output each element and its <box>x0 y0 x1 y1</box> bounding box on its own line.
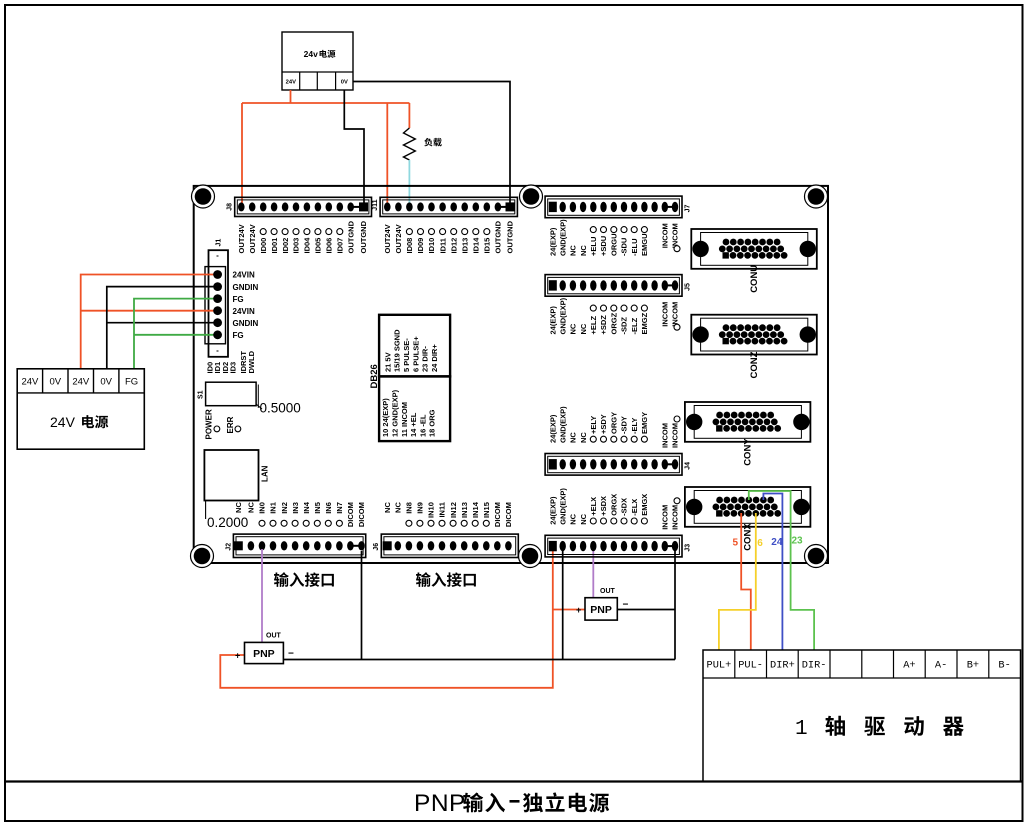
svg-text:NC: NC <box>383 502 392 513</box>
svg-text:CONX: CONX <box>743 523 754 551</box>
svg-text:B-: B- <box>998 660 1010 672</box>
svg-text:A-: A- <box>935 660 947 672</box>
svg-text:GND(EXP): GND(EXP) <box>558 488 567 525</box>
svg-text:-SDY: -SDY <box>620 416 629 434</box>
svg-text:ID09: ID09 <box>416 238 425 254</box>
svg-text:OUT24V: OUT24V <box>237 224 246 253</box>
svg-text:-SDU: -SDU <box>620 238 629 256</box>
svg-text:IN11: IN11 <box>438 502 447 517</box>
svg-text:10 24(EXP): 10 24(EXP) <box>381 398 390 437</box>
svg-text:POWER: POWER <box>205 409 214 439</box>
svg-text:24(EXP): 24(EXP) <box>549 227 558 256</box>
svg-text:IN5: IN5 <box>313 502 322 514</box>
svg-text:ID11: ID11 <box>438 238 447 253</box>
svg-text:IN4: IN4 <box>302 501 311 513</box>
svg-text:EMGX: EMGX <box>640 494 649 516</box>
svg-text:INCOM: INCOM <box>661 223 670 248</box>
svg-text:GND(EXP): GND(EXP) <box>558 219 567 256</box>
svg-text:FG: FG <box>233 331 244 340</box>
svg-text:ID10: ID10 <box>427 238 436 254</box>
svg-text:INCOM: INCOM <box>661 505 670 530</box>
svg-text:ID05: ID05 <box>314 238 323 254</box>
svg-text:PNP: PNP <box>414 790 466 817</box>
svg-text:12 GND(EXP): 12 GND(EXP) <box>391 389 400 437</box>
svg-text:NC: NC <box>569 432 578 443</box>
svg-text:IN3: IN3 <box>291 502 300 514</box>
svg-text:OUTGND: OUTGND <box>346 220 355 253</box>
svg-text:NC: NC <box>569 323 578 334</box>
svg-text:J1: J1 <box>216 239 223 247</box>
svg-text:24V: 24V <box>286 80 296 86</box>
svg-text:NC: NC <box>394 502 403 513</box>
svg-text:IN10: IN10 <box>427 502 436 518</box>
svg-text:ID04: ID04 <box>303 237 312 254</box>
svg-text:+: + <box>235 651 240 661</box>
svg-text:EMGZ: EMGZ <box>640 312 649 334</box>
svg-text:14 +EL: 14 +EL <box>409 412 418 437</box>
svg-text:DWLD: DWLD <box>247 350 256 373</box>
svg-text:ID12: ID12 <box>449 238 458 254</box>
svg-text:OUT24V: OUT24V <box>394 224 403 253</box>
svg-text:FG: FG <box>125 377 138 388</box>
svg-text:DICOM: DICOM <box>504 502 513 527</box>
svg-text:23: 23 <box>792 536 804 547</box>
svg-text:J3: J3 <box>684 544 691 552</box>
svg-text:NC: NC <box>569 513 578 524</box>
svg-text:IN0: IN0 <box>258 502 267 514</box>
svg-text:IN9: IN9 <box>416 502 425 514</box>
svg-text:J5: J5 <box>684 283 691 291</box>
svg-text:DB26: DB26 <box>369 364 380 388</box>
svg-text:J6: J6 <box>373 543 380 551</box>
svg-text:+ELX: +ELX <box>589 497 598 516</box>
svg-text:PUL+: PUL+ <box>707 660 732 672</box>
svg-text:ID3: ID3 <box>228 362 237 374</box>
svg-text:-ELX: -ELX <box>630 499 639 516</box>
svg-text:OUT: OUT <box>266 633 282 640</box>
svg-text:GNDIN: GNDIN <box>233 319 259 328</box>
svg-text:CONZ: CONZ <box>749 351 760 378</box>
svg-text:ERR: ERR <box>226 416 235 433</box>
svg-text:J7: J7 <box>684 205 691 213</box>
svg-text:ID08: ID08 <box>405 238 414 254</box>
svg-text:NC: NC <box>234 502 243 513</box>
svg-text:DICOM: DICOM <box>493 502 502 527</box>
svg-text:DIR+: DIR+ <box>770 660 795 672</box>
svg-text:24v: 24v <box>304 49 318 59</box>
svg-text:24(EXP): 24(EXP) <box>549 306 558 335</box>
svg-text:ORGX: ORGX <box>610 494 619 516</box>
svg-text:0.2000: 0.2000 <box>207 515 248 530</box>
svg-text:0.5000: 0.5000 <box>260 401 301 416</box>
svg-text:INCOM: INCOM <box>661 302 670 327</box>
svg-text:24V: 24V <box>50 414 76 430</box>
svg-text:ID13: ID13 <box>460 238 469 254</box>
svg-text:GND(EXP): GND(EXP) <box>558 406 567 443</box>
svg-text:24VIN: 24VIN <box>233 271 255 280</box>
svg-text:J4: J4 <box>684 462 691 470</box>
svg-text:23 DIR-: 23 DIR- <box>421 346 430 372</box>
svg-text:GND(EXP): GND(EXP) <box>558 297 567 334</box>
svg-text:DICOM: DICOM <box>357 502 366 527</box>
svg-text:IN2: IN2 <box>280 502 289 514</box>
svg-text:OUTGND: OUTGND <box>506 220 515 253</box>
svg-text:ID07: ID07 <box>336 238 345 254</box>
svg-text:ID06: ID06 <box>325 238 334 254</box>
svg-text:NC: NC <box>579 432 588 443</box>
svg-text:1: 1 <box>795 718 808 741</box>
svg-text:5: 5 <box>733 538 739 549</box>
svg-text:18 ORG: 18 ORG <box>428 409 437 437</box>
svg-text:24VIN: 24VIN <box>233 307 255 316</box>
svg-text:LAN: LAN <box>261 465 270 482</box>
svg-text:OUTGND: OUTGND <box>494 220 503 253</box>
svg-text:5 PULSE-: 5 PULSE- <box>402 338 411 372</box>
svg-text:A+: A+ <box>903 660 915 672</box>
svg-text:ID03: ID03 <box>292 238 301 254</box>
svg-text:+SDX: +SDX <box>599 496 608 516</box>
svg-text:IN15: IN15 <box>482 502 491 518</box>
svg-text:+SDZ: +SDZ <box>599 315 608 335</box>
svg-text:-ELZ: -ELZ <box>630 317 639 334</box>
svg-text:IN14: IN14 <box>471 501 480 518</box>
svg-text:DICOM: DICOM <box>346 502 355 527</box>
svg-text:OUTGND: OUTGND <box>359 220 368 253</box>
svg-text:J8: J8 <box>227 203 234 211</box>
svg-text:ORGZ: ORGZ <box>610 312 619 334</box>
svg-text:11 INCOM: 11 INCOM <box>400 402 409 437</box>
svg-text:24V: 24V <box>72 377 90 388</box>
svg-text:24V: 24V <box>21 377 39 388</box>
svg-text:INCOM: INCOM <box>671 423 680 448</box>
svg-text:ID15: ID15 <box>483 238 492 254</box>
svg-text:24 DIR+: 24 DIR+ <box>430 344 439 372</box>
svg-text:OUT24V: OUT24V <box>248 224 257 253</box>
svg-text:ID01: ID01 <box>270 238 279 254</box>
svg-text:IN7: IN7 <box>335 502 344 514</box>
svg-text:OUT: OUT <box>600 588 616 595</box>
svg-text:EMGU: EMGU <box>640 234 649 257</box>
svg-text:0V: 0V <box>49 377 61 388</box>
svg-text:NC: NC <box>579 245 588 256</box>
svg-text:+: + <box>576 605 581 615</box>
svg-text:NC: NC <box>247 502 256 513</box>
svg-text:+ELZ: +ELZ <box>589 316 598 335</box>
svg-text:+SDU: +SDU <box>599 236 608 256</box>
svg-text:6 PULSE+: 6 PULSE+ <box>411 336 420 372</box>
svg-text:ORGY: ORGY <box>610 412 619 434</box>
svg-text:FG: FG <box>233 295 244 304</box>
svg-text:NC: NC <box>579 323 588 334</box>
svg-text:ID14: ID14 <box>472 237 481 254</box>
svg-text:+SDY: +SDY <box>599 414 608 434</box>
svg-text:PNP: PNP <box>590 604 612 616</box>
svg-text:-ELY: -ELY <box>630 418 639 434</box>
svg-text:PUL-: PUL- <box>738 660 763 672</box>
svg-text:+ELY: +ELY <box>589 416 598 434</box>
svg-text:IN12: IN12 <box>449 502 458 518</box>
svg-text:S1: S1 <box>198 390 205 399</box>
svg-text:NC: NC <box>569 245 578 256</box>
svg-text:0V: 0V <box>100 377 112 388</box>
svg-text:15/19 SGND: 15/19 SGND <box>393 329 402 372</box>
svg-text:EMGY: EMGY <box>640 412 649 434</box>
svg-text:6: 6 <box>757 538 763 549</box>
svg-text:IN8: IN8 <box>405 502 414 514</box>
svg-text:IN1: IN1 <box>269 502 278 514</box>
svg-text:0V: 0V <box>341 80 348 86</box>
svg-text:B+: B+ <box>967 660 979 672</box>
svg-text:PNP: PNP <box>253 648 275 660</box>
svg-text:-SDX: -SDX <box>620 498 629 516</box>
svg-text:INCOM: INCOM <box>671 302 680 327</box>
svg-text:24: 24 <box>771 537 783 548</box>
svg-text:ORGU: ORGU <box>610 234 619 257</box>
svg-text:CONY: CONY <box>743 438 754 466</box>
svg-text:ID02: ID02 <box>281 238 290 254</box>
svg-text:J2: J2 <box>225 543 232 551</box>
svg-text:−: − <box>288 649 294 660</box>
svg-text:CONU: CONU <box>749 265 760 293</box>
svg-text:NC: NC <box>579 513 588 524</box>
svg-text:J11: J11 <box>372 199 379 210</box>
svg-text:24(EXP): 24(EXP) <box>549 414 558 443</box>
svg-text:OUT24V: OUT24V <box>383 224 392 253</box>
svg-text:-SDZ: -SDZ <box>620 317 629 335</box>
svg-text:21 5V: 21 5V <box>383 352 392 372</box>
svg-text:+ELU: +ELU <box>589 237 598 256</box>
svg-text:-ELU: -ELU <box>630 239 639 257</box>
svg-text:16 -EL: 16 -EL <box>418 414 427 437</box>
svg-text:INCOM: INCOM <box>671 223 680 248</box>
svg-text:DIR-: DIR- <box>802 660 827 672</box>
svg-text:−: − <box>623 600 629 611</box>
svg-text:GNDIN: GNDIN <box>233 283 259 292</box>
svg-text:INCOM: INCOM <box>661 423 670 448</box>
svg-text:IN6: IN6 <box>324 502 333 514</box>
svg-text:IN13: IN13 <box>460 502 469 518</box>
svg-text:ID00: ID00 <box>259 238 268 254</box>
svg-text:INCOM: INCOM <box>671 505 680 530</box>
svg-text:24(EXP): 24(EXP) <box>549 496 558 525</box>
